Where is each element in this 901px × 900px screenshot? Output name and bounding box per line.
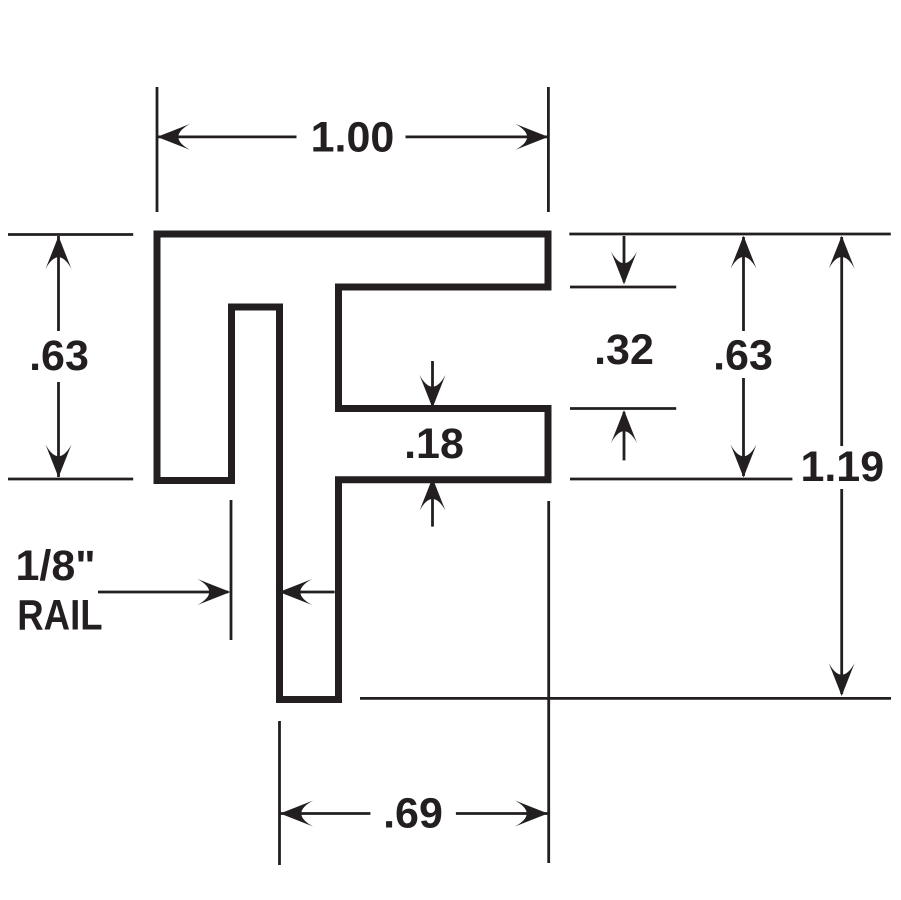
- arrow .32 up: [611, 410, 637, 443]
- rail leader line left: [98, 591, 228, 594]
- arrow 1.19 up: [829, 236, 855, 269]
- extension line right of .69: [547, 501, 550, 863]
- .32 upper arrow shaft: [623, 236, 626, 282]
- arrow left .63 down: [46, 445, 72, 478]
- dimension line 1.19: [840, 237, 843, 446]
- dimension line 1.00: [157, 135, 297, 138]
- .18 upper arrow shaft: [431, 361, 434, 406]
- arrow rail left-pointing: [279, 579, 312, 605]
- arrow .18 up: [420, 478, 446, 511]
- svg-text:.63: .63: [29, 332, 89, 380]
- svg-text:1/8": 1/8": [16, 542, 96, 590]
- arrow .69 right: [515, 801, 548, 827]
- arrow 1.00 right: [515, 124, 548, 150]
- extension line arm top right: [570, 407, 676, 410]
- arrow right .63 down: [731, 445, 757, 478]
- svg-text:1.19: 1.19: [800, 443, 884, 491]
- arrow 1.19 down: [829, 663, 855, 696]
- extension line left of .69: [278, 721, 281, 865]
- svg-text:1.00: 1.00: [311, 114, 395, 162]
- arrow .32 down: [611, 252, 637, 285]
- svg-text:.32: .32: [594, 326, 654, 374]
- arrow rail right-pointing: [198, 579, 231, 605]
- arrow .18 down: [420, 375, 446, 408]
- dimension line right .63: [742, 237, 745, 331]
- extension line bottom of left .63: [8, 478, 133, 481]
- extension line top of left .63: [8, 233, 133, 236]
- .32 lower arrow shaft: [623, 412, 626, 460]
- extension line right of 1.00: [547, 87, 550, 212]
- extension line left of 1.00: [156, 87, 159, 212]
- arrow 1.00 left: [157, 124, 190, 150]
- extension line of rail slot left wall: [230, 500, 233, 640]
- .18 lower arrow shaft: [431, 479, 434, 527]
- extension line top right long: [569, 233, 891, 236]
- arrow left .63 up: [46, 236, 72, 269]
- svg-text:.18: .18: [404, 420, 464, 468]
- extension line bottom long: [360, 697, 891, 700]
- svg-text:RAIL: RAIL: [17, 592, 102, 639]
- extension line arm bottom right: [570, 478, 792, 481]
- extension line bar bottom right: [570, 286, 676, 289]
- dimension line left .63: [57, 236, 60, 331]
- svg-text:.63: .63: [713, 332, 773, 380]
- arrow .69 left: [280, 801, 313, 827]
- svg-text:.69: .69: [383, 790, 443, 838]
- rail leader line right: [280, 591, 335, 594]
- dimension line .69: [280, 812, 370, 815]
- profile outline of F-shaped extrusion: [157, 234, 548, 700]
- arrow right .63 up: [731, 236, 757, 269]
